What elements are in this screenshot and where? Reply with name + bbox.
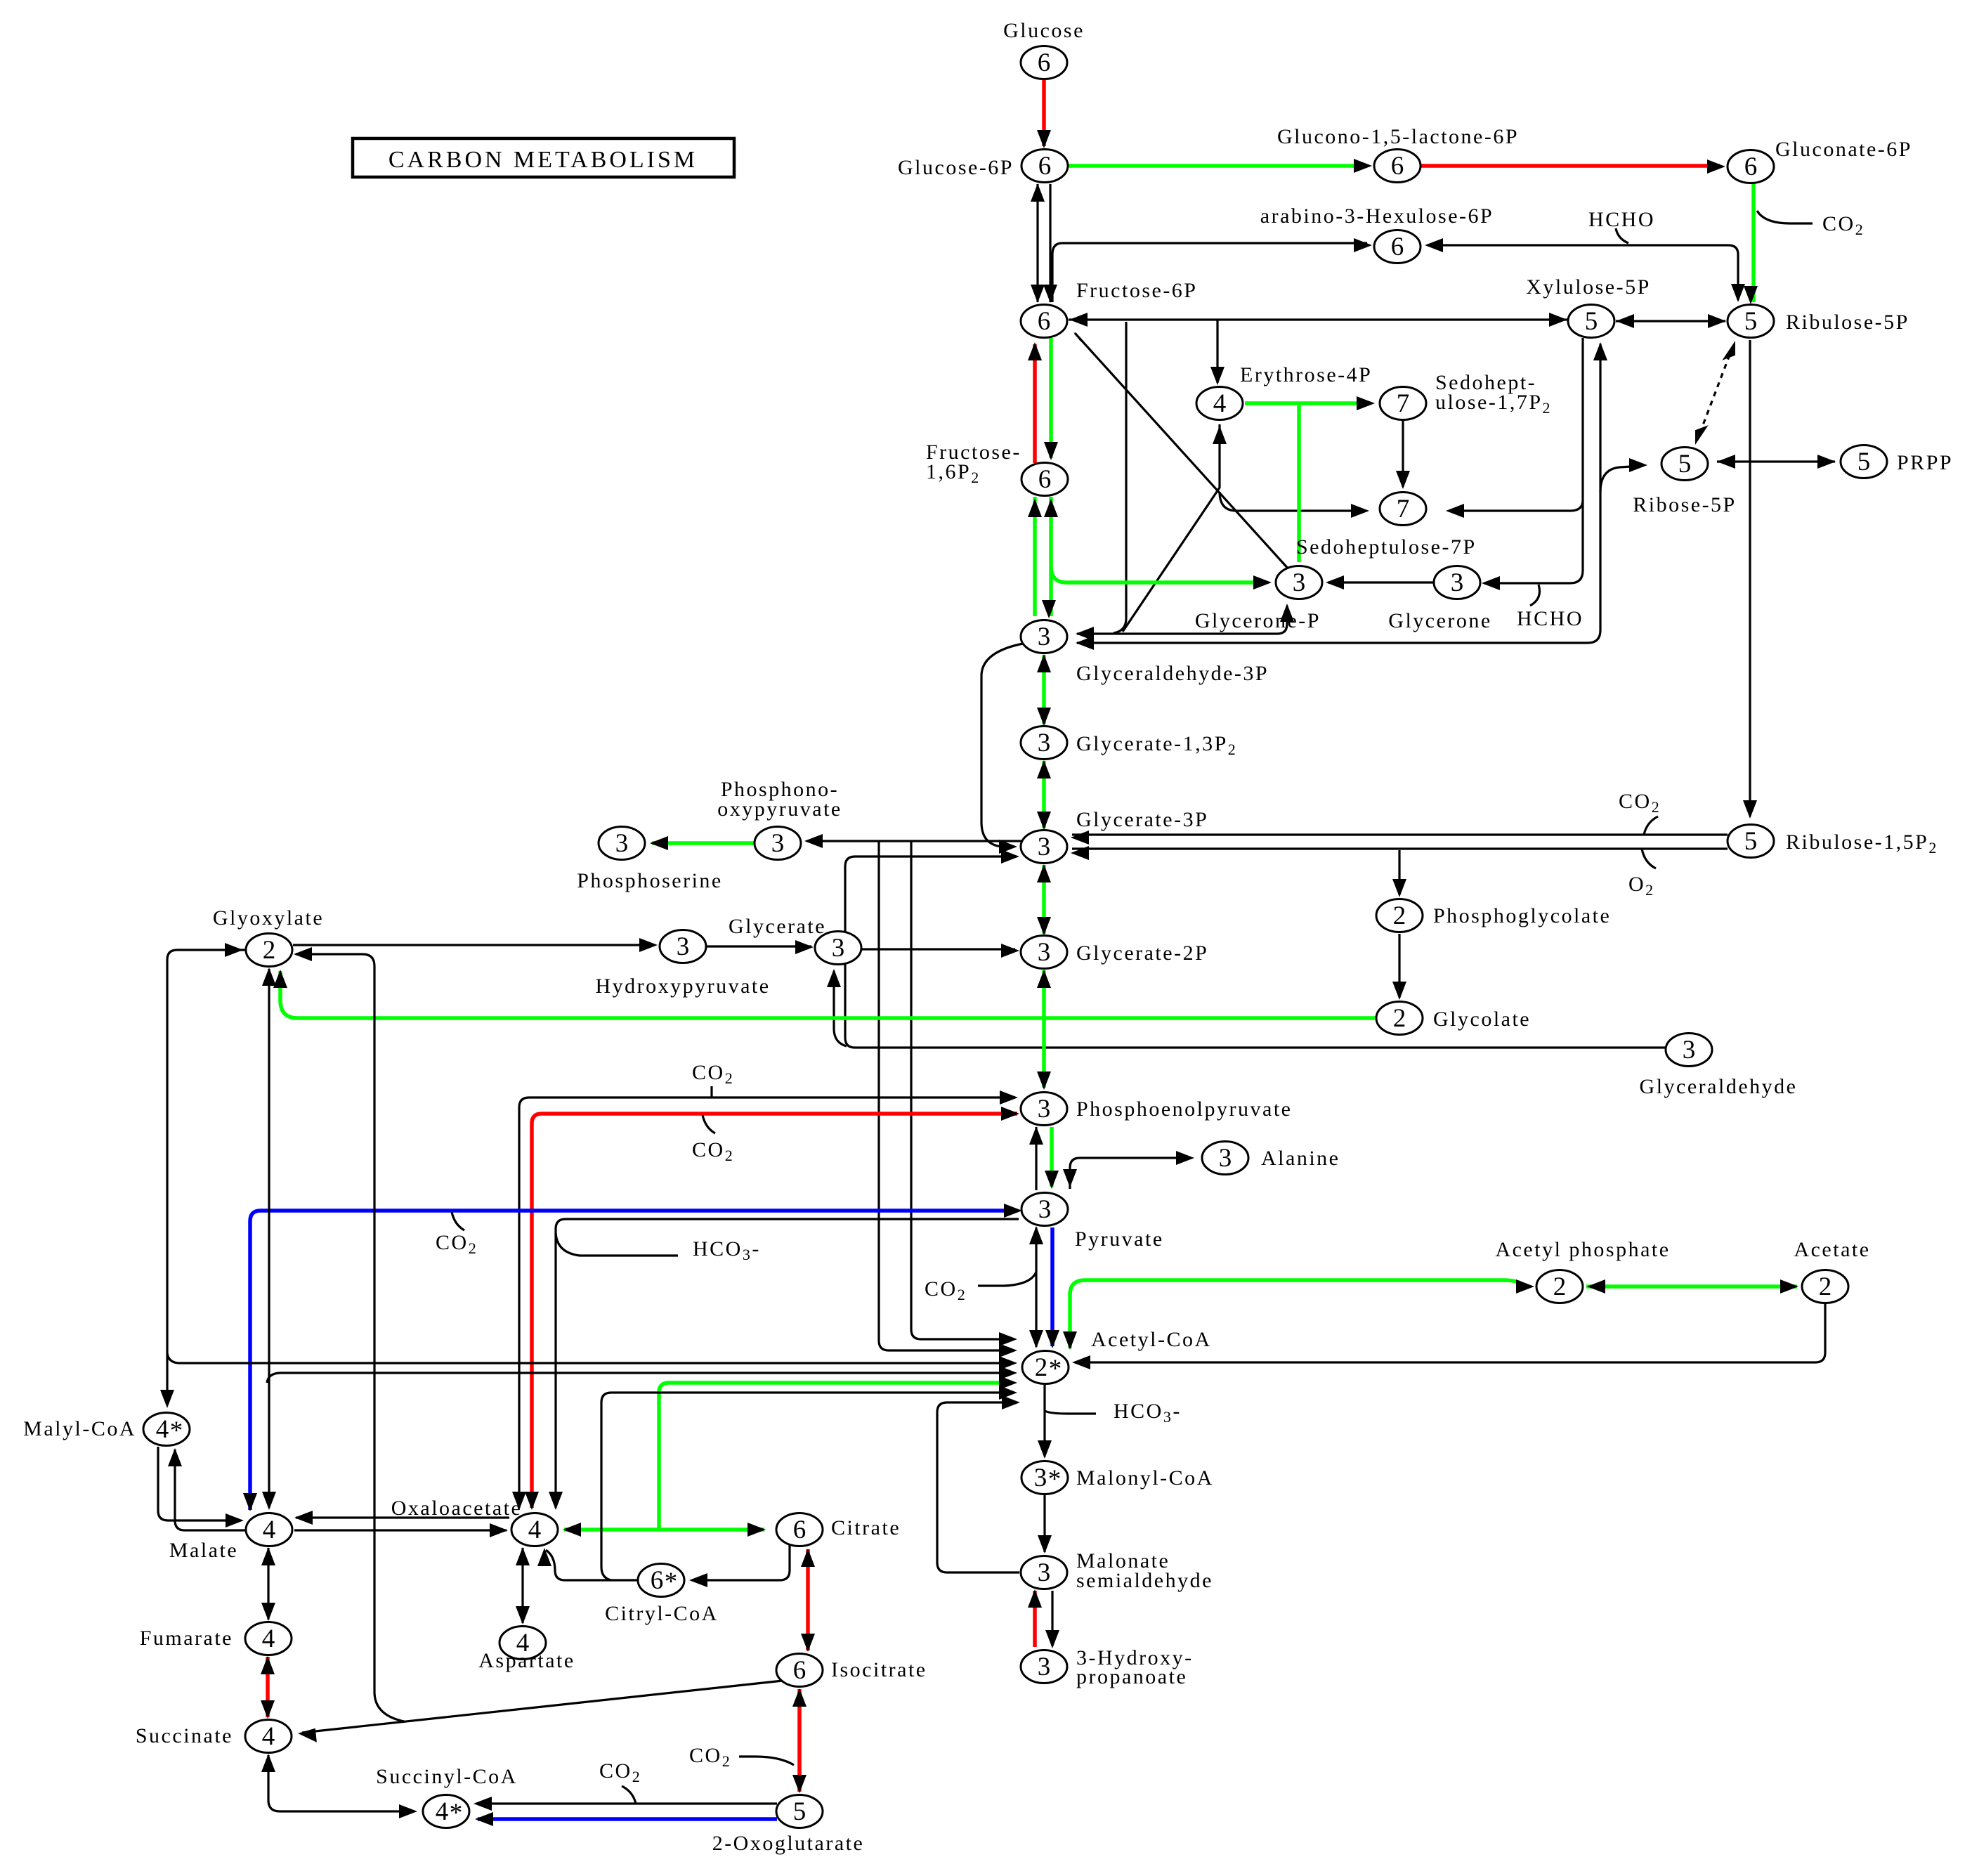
svg-text:Hydroxypyruvate: Hydroxypyruvate xyxy=(595,975,770,998)
svg-text:6: 6 xyxy=(651,1566,664,1595)
node Phosphoenolpyruvate xyxy=(1021,1093,1067,1126)
svg-text:5: 5 xyxy=(1744,827,1758,856)
svg-text:Glycerate: Glycerate xyxy=(729,915,826,938)
svg-text:4: 4 xyxy=(1213,389,1227,418)
node Malonate semialdehyde xyxy=(1021,1556,1067,1589)
node Glycerate xyxy=(815,932,861,965)
node Fructose-1,6P2 xyxy=(1021,463,1068,496)
edge V1 branch->Sedoheptulose-7P right xyxy=(1446,500,1583,518)
edge Fructose-1,6P2->GAP green2 xyxy=(1042,497,1058,618)
edge arabino-Hexulose-6P from Ribulose-5P xyxy=(1425,238,1745,302)
edge Gluconate-6P->Ribulose-5P (green) xyxy=(1744,183,1758,304)
svg-text:5: 5 xyxy=(1678,450,1692,478)
connector CO2 (OGDH) xyxy=(622,1786,636,1804)
svg-text:Pyruvate: Pyruvate xyxy=(1075,1227,1164,1251)
connector CO2 (rubisco) xyxy=(1644,816,1658,835)
edge Phosphoglycolate from Rbu-1,5P2 line xyxy=(1392,850,1406,897)
svg-text:Ribose-5P: Ribose-5P xyxy=(1633,493,1737,516)
edge arabino-Hexulose-6P from Fructose-6P xyxy=(1052,238,1372,302)
edge Acetyl-phosphate<->Acetate (green) xyxy=(1586,1279,1798,1294)
svg-text:*: * xyxy=(1049,1355,1062,1383)
svg-text:Ribulose-1,5P2: Ribulose-1,5P2 xyxy=(1786,830,1938,856)
svg-text:Citrate: Citrate xyxy=(831,1516,901,1539)
node 3-Hydroxypropanoate xyxy=(1021,1650,1067,1683)
svg-text:Glycerone: Glycerone xyxy=(1388,609,1491,632)
svg-text:6: 6 xyxy=(793,1516,807,1544)
svg-text:3: 3 xyxy=(1451,568,1464,597)
edge Ribulose-5P->Ribulose-1,5P2 xyxy=(1743,340,1757,819)
svg-text:Glucono-1,5-lactone-6P: Glucono-1,5-lactone-6P xyxy=(1277,125,1519,148)
svg-text:HCHO: HCHO xyxy=(1588,208,1655,231)
edge Hydroxypyruvate->Glycerate xyxy=(707,940,814,954)
svg-text:2: 2 xyxy=(263,936,276,965)
node Citrate xyxy=(776,1513,823,1546)
edge Pyruvate->Acetyl-CoA (blue) xyxy=(1045,1227,1059,1348)
edge Phosphono-oxypyruvate->Phosphoserine (green) xyxy=(650,836,755,850)
connector CO2 (red line) xyxy=(703,1115,715,1133)
edge Glucose-6P<->Fructose-6P line2 xyxy=(1043,184,1057,303)
svg-text:Phosphoserine: Phosphoserine xyxy=(577,869,723,892)
edge Glycerate-3P<->Glycerate-2P (green) xyxy=(1037,864,1051,935)
node Phosphoglycolate xyxy=(1376,899,1423,932)
edge Phosphoglycolate->Glycolate xyxy=(1392,934,1406,1000)
edge Malate->OAA xyxy=(294,1523,508,1537)
svg-text:3: 3 xyxy=(1038,833,1051,861)
node Glyoxylate xyxy=(246,934,292,967)
svg-text:3: 3 xyxy=(1219,1144,1232,1173)
node Ribulose-1,5P2 xyxy=(1728,825,1774,858)
svg-text:6: 6 xyxy=(1744,152,1758,181)
edge Pyruvate->OAA (pyruvate carboxylase) xyxy=(549,1219,1019,1510)
svg-text:Alanine: Alanine xyxy=(1261,1147,1340,1170)
svg-text:6: 6 xyxy=(1038,307,1051,336)
svg-text:6: 6 xyxy=(793,1656,807,1685)
svg-text:HCHO: HCHO xyxy=(1517,607,1584,630)
edge Citryl-CoA->OAA xyxy=(537,1548,638,1580)
edge X5P down V1 ->Glycerone xyxy=(1482,338,1583,590)
edge Malonate-semialdehyde<->3-Hydroxypropanoate red xyxy=(1028,1589,1042,1647)
edge Malonyl-CoA->Malonate-semialdehyde xyxy=(1038,1495,1052,1553)
edge Glycerate-3P->Phosphono-oxypyruvate xyxy=(804,834,1021,848)
node Xylulose-5P xyxy=(1568,305,1614,338)
node Malate xyxy=(246,1513,292,1546)
node Citryl-CoA xyxy=(638,1564,684,1597)
node Acetyl phosphate xyxy=(1536,1270,1583,1303)
svg-text:Glycerone-P: Glycerone-P xyxy=(1195,609,1321,632)
edge F6P/X5P line->Erythrose-4P xyxy=(1210,320,1225,385)
edge Erythrose-4P<->GAP+S7P branch xyxy=(1123,424,1227,632)
svg-text:*: * xyxy=(170,1416,183,1445)
svg-text:Glyceraldehyde-3P: Glyceraldehyde-3P xyxy=(1076,662,1269,685)
svg-text:4: 4 xyxy=(262,1624,275,1653)
svg-text:Glycerate-2P: Glycerate-2P xyxy=(1076,942,1208,965)
node Sedoheptulose-7P xyxy=(1380,493,1426,526)
connector CO2 (PDH) xyxy=(978,1272,1036,1286)
svg-text:Malate: Malate xyxy=(169,1539,238,1562)
svg-text:4: 4 xyxy=(436,1797,449,1826)
edge Glycerone->Glycerone-P xyxy=(1326,575,1433,589)
edge Isocitrate<->2-Oxoglutarate (red) xyxy=(792,1688,807,1793)
svg-text:CARBON METABOLISM: CARBON METABOLISM xyxy=(388,147,698,173)
edge Isocitrate->Succinate (diagonal) xyxy=(298,1681,783,1743)
edge green branch->Glycerone-P top xyxy=(1297,405,1301,562)
edge Ribulose-5P<->Ribose-5P (dashed) xyxy=(1695,341,1735,445)
svg-text:Glucose-6P: Glucose-6P xyxy=(898,156,1014,179)
node Aspartate xyxy=(499,1627,546,1660)
edge Glycerate-3P buses down to Acetyl-CoA bus1 xyxy=(911,841,1017,1346)
edge Glucose-6P->Glucono-lactone-6P (green) xyxy=(1069,159,1372,173)
edge green branch->Glycerone-P left xyxy=(1051,566,1272,589)
svg-text:4: 4 xyxy=(263,1516,276,1544)
edge Citrate->Citryl-CoA xyxy=(689,1545,790,1587)
node Phosphoserine xyxy=(599,827,645,860)
edge Malyl-CoA line->Acetyl-CoA xyxy=(167,1353,1017,1370)
connector HCHO (hexulose synthase) xyxy=(1616,228,1628,243)
connector O2 (rubisco oxygenase) xyxy=(1642,849,1656,868)
node Succinyl-CoA xyxy=(423,1795,469,1828)
edge Isocitrate->Glyoxylate xyxy=(294,947,404,1721)
node Acetate xyxy=(1802,1270,1848,1303)
node Glycerate-2P xyxy=(1021,936,1067,969)
svg-text:Phosphoenolpyruvate: Phosphoenolpyruvate xyxy=(1076,1097,1292,1121)
svg-text:7: 7 xyxy=(1397,495,1410,523)
svg-text:4: 4 xyxy=(156,1415,169,1444)
svg-text:3: 3 xyxy=(832,934,845,963)
edge Acetate-line->Acetyl-CoA (green) xyxy=(1063,1279,1534,1350)
svg-text:3: 3 xyxy=(1293,568,1306,597)
edge 2-Oxoglutarate->Succinyl-CoA black xyxy=(474,1797,777,1811)
edge Glycerate-3P buses down to Acetyl-CoA bus2 xyxy=(879,841,1017,1357)
node Pyruvate xyxy=(1021,1193,1068,1226)
svg-text:Glycerate-3P: Glycerate-3P xyxy=(1076,808,1208,831)
svg-text:6: 6 xyxy=(1038,152,1052,181)
node Isocitrate xyxy=(776,1654,823,1687)
node Glucono-1,5-lactone-6P xyxy=(1374,150,1421,183)
edge Acetyl-CoA->Malonyl-CoA xyxy=(1038,1385,1052,1459)
svg-text:3: 3 xyxy=(1038,938,1051,967)
svg-text:Malonyl-CoA: Malonyl-CoA xyxy=(1076,1466,1214,1490)
svg-text:Glycerate-1,3P2: Glycerate-1,3P2 xyxy=(1076,732,1237,758)
connector CO2 (malic enzyme) xyxy=(452,1212,464,1230)
svg-text:Glucose: Glucose xyxy=(1003,19,1085,42)
svg-text:Aspartate: Aspartate xyxy=(478,1649,575,1672)
edge X5P up V2 from GAP (transketolase) xyxy=(1076,342,1607,650)
svg-text:Xylulose-5P: Xylulose-5P xyxy=(1526,275,1651,299)
edge Succinyl-CoA->Succinate xyxy=(261,1754,417,1818)
svg-text:3: 3 xyxy=(1038,1195,1052,1224)
node Sedoheptulose-1,7P2 xyxy=(1380,387,1426,420)
edge Sedoheptulose-1,7P2->Sedoheptulose-7P xyxy=(1396,420,1410,489)
svg-text:Glyoxylate: Glyoxylate xyxy=(213,906,324,930)
svg-text:Phosphoglycolate: Phosphoglycolate xyxy=(1433,904,1611,927)
svg-text:3: 3 xyxy=(771,829,785,858)
edge central bus F6P-line to GAP xyxy=(1114,322,1126,633)
edge OAA->Malate xyxy=(294,1511,509,1525)
connector CO2 (PEPCK) xyxy=(710,1086,712,1097)
node Glycolate xyxy=(1376,1002,1423,1035)
edge Citryl-CoA->Acetyl-CoA xyxy=(601,1386,1017,1580)
node Oxaloacetate xyxy=(511,1513,558,1546)
edge 2-Oxoglutarate->Succinyl-CoA (blue) xyxy=(475,1812,777,1826)
edge Malate<->Fumarate xyxy=(261,1547,275,1621)
edge Glucose-6P<->Fructose-6P line1 xyxy=(1031,183,1045,303)
svg-text:5: 5 xyxy=(793,1797,807,1826)
svg-text:Erythrose-4P: Erythrose-4P xyxy=(1240,363,1372,386)
node Glycerate-1,3P2 xyxy=(1021,727,1067,760)
svg-text:7: 7 xyxy=(1397,389,1410,418)
svg-text:5: 5 xyxy=(1585,307,1598,336)
node Glucose xyxy=(1021,46,1067,79)
node Fumarate xyxy=(245,1622,292,1655)
svg-text:*: * xyxy=(665,1568,678,1596)
edge Glucono-lactone-6P->Gluconate-6P (red) xyxy=(1421,159,1725,174)
connector HCO3- (acetyl-CoA carboxylase) xyxy=(1045,1411,1096,1414)
edge GAP bypass ->Glycerate-3P xyxy=(981,644,1023,854)
svg-text:ulose-1,7P2: ulose-1,7P2 xyxy=(1435,391,1552,417)
edge OAA<->Citrate (green) xyxy=(563,1523,766,1537)
svg-text:*: * xyxy=(1048,1465,1062,1494)
svg-text:6: 6 xyxy=(1038,465,1052,494)
edge Malate<->Pyruvate (blue) xyxy=(243,1204,1022,1511)
edge Malate-synthase branch->Acetyl-CoA xyxy=(267,1366,1017,1383)
edge GAP<->Glycerate-1,3P2 (green) xyxy=(1037,654,1051,726)
edge branch->Glycerate xyxy=(827,969,847,1046)
edge OAA<->PEP (red) xyxy=(525,1107,1019,1510)
svg-text:2: 2 xyxy=(1819,1272,1832,1301)
svg-text:Sedoheptulose-7P: Sedoheptulose-7P xyxy=(1296,535,1477,559)
svg-text:2: 2 xyxy=(1035,1353,1048,1382)
svg-text:3: 3 xyxy=(1038,623,1051,651)
svg-text:arabino-3-Hexulose-6P: arabino-3-Hexulose-6P xyxy=(1260,204,1494,228)
svg-text:Succinyl-CoA: Succinyl-CoA xyxy=(376,1765,518,1788)
svg-text:Malyl-CoA: Malyl-CoA xyxy=(23,1417,136,1440)
edge Pyruvate<->Acetyl-CoA black xyxy=(1029,1226,1043,1348)
edge Fructose-6P->Fructose-1,6P2 (green) xyxy=(1044,338,1058,460)
edge green branch Citrate->Acetyl-CoA xyxy=(659,1376,1017,1529)
node Malonyl-CoA xyxy=(1021,1461,1068,1494)
svg-text:semialdehyde: semialdehyde xyxy=(1076,1569,1213,1592)
node Glycerone-P xyxy=(1276,566,1322,599)
edge OAA->PEP (PEP carboxykinase) xyxy=(512,1090,1018,1510)
svg-text:2: 2 xyxy=(1553,1272,1567,1301)
node Glyceraldehyde xyxy=(1666,1034,1712,1067)
edge Ribulose-1,5P2->Glycerate-3P line2 xyxy=(1071,846,1728,860)
node Hydroxypyruvate xyxy=(660,930,706,963)
edge Fructose-1,6P2->GAP green1 xyxy=(1028,497,1042,616)
svg-text:4: 4 xyxy=(262,1722,275,1751)
node Gluconate-6P xyxy=(1728,150,1774,183)
svg-text:Ribulose-5P: Ribulose-5P xyxy=(1786,311,1909,334)
edge Citrate<->Isocitrate (red) xyxy=(801,1549,815,1652)
svg-text:Acetyl-CoA: Acetyl-CoA xyxy=(1091,1328,1212,1351)
svg-text:5: 5 xyxy=(1744,307,1758,336)
edge Acetate->Acetyl-CoA xyxy=(1072,1304,1825,1369)
svg-text:4: 4 xyxy=(528,1516,542,1544)
svg-text:6: 6 xyxy=(1391,152,1404,181)
node Fructose-6P xyxy=(1021,305,1067,338)
svg-text:Gluconate-6P: Gluconate-6P xyxy=(1775,138,1912,161)
node Alanine xyxy=(1202,1142,1248,1175)
edge Malonate-semialdehyde->Acetyl-CoA xyxy=(937,1395,1020,1572)
edge PEP<->Pyruvate black xyxy=(1029,1126,1043,1190)
svg-text:6: 6 xyxy=(1391,233,1404,261)
svg-text:Isocitrate: Isocitrate xyxy=(831,1658,927,1681)
edge Glyoxylate->Hydroxypyruvate xyxy=(293,938,658,952)
edge Malate->Malyl-CoA xyxy=(168,1448,247,1530)
svg-text:propanoate: propanoate xyxy=(1076,1665,1187,1688)
edge branch->Sedoheptulose-7P xyxy=(1220,492,1369,518)
edge Fructose-6P<->Xylulose-5P xyxy=(1069,313,1567,327)
edge branch V2->Ribose-5P xyxy=(1600,458,1647,492)
edge PEP->Pyruvate (green) xyxy=(1045,1127,1059,1189)
title box CARBON METABOLISM xyxy=(353,138,734,177)
edge Ribulose-1,5P2->Glycerate-3P line1 xyxy=(1071,830,1728,845)
svg-text:Fumarate: Fumarate xyxy=(140,1627,233,1650)
svg-text:oxypyruvate: oxypyruvate xyxy=(717,797,842,821)
node arabino-3-Hexulose-6P xyxy=(1374,230,1421,263)
node Phosphono-oxypyruvate xyxy=(755,827,801,860)
svg-text:3: 3 xyxy=(1038,1558,1051,1587)
connector CO2 (IDH) xyxy=(739,1757,794,1765)
svg-text:3: 3 xyxy=(1038,1653,1051,1681)
edge Glycolate->Glyoxylate (green) xyxy=(273,970,1377,1018)
node Malyl-CoA xyxy=(143,1413,190,1446)
edge Erythrose-4P->Sedoheptulose-1,7P2 (green) xyxy=(1245,396,1375,410)
edge Glycerate-2P->PEP (green) xyxy=(1037,970,1051,1090)
node Glycerate-3P xyxy=(1021,830,1067,864)
edge Malyl-CoA->Malate xyxy=(158,1447,244,1527)
svg-text:6: 6 xyxy=(1038,48,1051,77)
connector CO2 (6-phosphogluconate dehydrogenase) xyxy=(1757,211,1813,223)
node Glucose-6P xyxy=(1021,150,1068,183)
edge Glyceraldehyde->Glycerate-3P xyxy=(845,849,1666,1048)
edge Fructose-1,6P2->Fructose-6P (red) xyxy=(1028,342,1042,463)
node Acetyl-CoA xyxy=(1022,1351,1069,1384)
edge Malonate-semialdehyde->3-Hydroxypropanoate black xyxy=(1045,1591,1059,1648)
svg-text:Oxaloacetate: Oxaloacetate xyxy=(391,1497,523,1520)
node Ribulose-5P xyxy=(1728,305,1774,338)
edge Fumarate<->Succinate (red) xyxy=(261,1656,275,1719)
edge TPI GAP<->Glycerone-P xyxy=(1076,604,1294,641)
svg-text:2-Oxoglutarate: 2-Oxoglutarate xyxy=(712,1832,865,1855)
svg-text:2: 2 xyxy=(1393,1004,1406,1033)
svg-text:Glycolate: Glycolate xyxy=(1433,1008,1531,1031)
svg-text:Acetyl phosphate: Acetyl phosphate xyxy=(1495,1238,1670,1261)
node Ribose-5P xyxy=(1661,448,1708,481)
svg-text:3: 3 xyxy=(1683,1036,1696,1064)
edge Pyruvate<->Alanine xyxy=(1063,1151,1194,1189)
connector HCO3- (pyruvate carboxylase) xyxy=(556,1233,678,1256)
svg-text:Citryl-CoA: Citryl-CoA xyxy=(605,1602,719,1625)
edge Glycerone-P->Fructose-6P (diagonal) xyxy=(1073,331,1290,571)
svg-text:Acetate: Acetate xyxy=(1794,1238,1870,1261)
node Succinate xyxy=(245,1720,292,1753)
svg-text:3: 3 xyxy=(677,932,690,961)
edge Glycerate->Glycerate-2P xyxy=(862,944,1019,958)
svg-text:*: * xyxy=(450,1799,463,1828)
edge Glucose->Glucose-6P (red) xyxy=(1037,79,1051,148)
svg-text:Fructose-6P: Fructose-6P xyxy=(1076,279,1198,302)
node 2-Oxoglutarate xyxy=(776,1795,823,1828)
edge Glyoxylate<->Malyl-CoA xyxy=(160,943,245,1408)
node Glycerone xyxy=(1434,566,1480,599)
edge Xylulose-5P<->Ribulose-5P xyxy=(1616,314,1726,328)
connector HCHO lower xyxy=(1530,585,1540,606)
edge Glyoxylate<->Malate xyxy=(262,968,276,1510)
node Glyceraldehyde-3P xyxy=(1021,620,1067,653)
edge OAA<->Aspartate xyxy=(516,1547,530,1624)
svg-text:3: 3 xyxy=(1038,1095,1051,1123)
svg-text:3: 3 xyxy=(1034,1464,1047,1492)
svg-text:Succinate: Succinate xyxy=(136,1724,233,1747)
svg-text:2: 2 xyxy=(1393,901,1406,930)
svg-text:3: 3 xyxy=(1038,729,1051,757)
svg-text:PRPP: PRPP xyxy=(1897,451,1953,474)
svg-text:5: 5 xyxy=(1857,448,1871,476)
node PRPP xyxy=(1841,445,1887,478)
svg-text:Glyceraldehyde: Glyceraldehyde xyxy=(1640,1075,1798,1098)
node Erythrose-4P xyxy=(1196,387,1243,420)
edge Glycerate-1,3P2<->Glycerate-3P (green) xyxy=(1037,760,1051,830)
svg-text:3: 3 xyxy=(615,829,629,858)
edge Ribose-5P<->PRPP xyxy=(1717,455,1836,469)
